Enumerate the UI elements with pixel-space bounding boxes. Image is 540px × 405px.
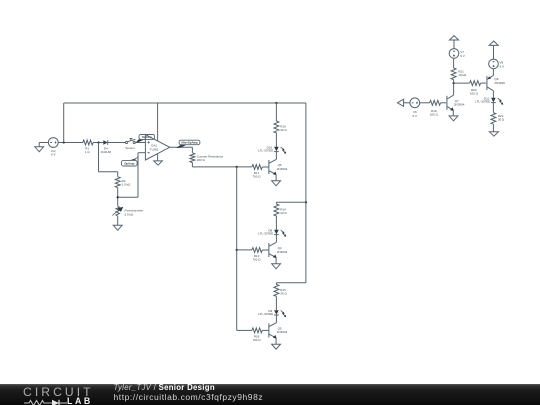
wire LED D8 to Q4 collector bbox=[275, 235, 277, 243]
svg-text:TL081: TL081 bbox=[150, 147, 159, 151]
wire R1 to diode bbox=[93, 142, 103, 144]
flag AfterOpAmp at output bbox=[177, 140, 200, 148]
wire pot to ground bbox=[117, 216, 119, 225]
wire R2 to junction bbox=[117, 188, 119, 207]
wire base bus to Q5 base bbox=[237, 329, 252, 331]
wire Vcc feed to R16 bbox=[275, 103, 277, 121]
wire right Vcc line to R14 bbox=[276, 201, 306, 203]
wire V8 to flag arrow bbox=[493, 45, 495, 59]
svg-text:LTL-307EE: LTL-307EE bbox=[258, 149, 273, 153]
svg-text:5.0 kΩ: 5.0 kΩ bbox=[125, 212, 135, 216]
flag arrow below R22 bbox=[489, 132, 498, 136]
svg-text:1 Ω: 1 Ω bbox=[85, 150, 91, 154]
svg-text:OpAmp: OpAmp bbox=[124, 161, 134, 165]
transistor Q7 2N3904 bbox=[447, 95, 465, 111]
LED D8 LTL-307EE bbox=[258, 228, 286, 236]
svg-text:700 Ω: 700 Ω bbox=[252, 175, 261, 179]
node junction before diode D4 bbox=[97, 141, 99, 143]
wire - input left and down bbox=[118, 153, 146, 198]
wire Q5 emitter to ground bbox=[275, 338, 277, 344]
wire Vcc to node bbox=[58, 142, 83, 144]
wire R22 to flag arrow bbox=[492, 124, 494, 131]
flag OpAmp at + input bbox=[136, 135, 155, 143]
LED D11 LTL-307EE bbox=[475, 96, 503, 104]
wire R21 to V7 bbox=[453, 58, 455, 68]
ground (Q6 emitter) bbox=[272, 181, 281, 186]
wire Q6 emitter to ground bbox=[275, 175, 277, 181]
wire Q7 emitter to ground bbox=[452, 110, 454, 116]
resistor R16 30 Ohm bbox=[274, 121, 288, 133]
node junction R2 / pot / op-amp feedback bbox=[117, 196, 119, 198]
wire op-amp V+ supply to rail bbox=[157, 103, 159, 141]
wire R16 to LED D10 bbox=[275, 133, 277, 147]
wire op-amp output bbox=[170, 147, 193, 153]
voltage source Vcc 6V bbox=[48, 138, 58, 157]
svg-text:10 kΩ: 10 kΩ bbox=[458, 73, 467, 77]
flag OpAmp at - input branch bbox=[122, 156, 139, 166]
wire base bus to Q4 base bbox=[237, 249, 252, 251]
wire R15 to LED D9 bbox=[275, 296, 277, 310]
svg-text:700 Ω: 700 Ω bbox=[252, 258, 261, 262]
transistor Q8 2N3906 bbox=[487, 75, 505, 90]
wire node up to top rail bbox=[63, 103, 65, 143]
svg-text:1.0 kΩ: 1.0 kΩ bbox=[122, 183, 132, 187]
svg-text:700 Ω: 700 Ω bbox=[252, 338, 261, 342]
resistor R1 1 Ohm bbox=[83, 140, 93, 154]
svg-text:6 V: 6 V bbox=[460, 54, 465, 58]
wire base bus vertical bbox=[236, 167, 238, 331]
wire R20 to Q8 base bbox=[481, 82, 487, 84]
svg-text:2N3904: 2N3904 bbox=[454, 103, 465, 107]
wire node down to R2 branch bbox=[99, 143, 118, 177]
svg-text:2N3904: 2N3904 bbox=[277, 250, 288, 254]
wire R14 to LED D8 bbox=[275, 216, 277, 230]
svg-text:LTL-307EE: LTL-307EE bbox=[258, 312, 273, 316]
wire Q4 emitter to ground bbox=[275, 258, 277, 264]
wire node to R20 bbox=[454, 82, 470, 84]
wire rail corner down right side bbox=[305, 103, 307, 283]
wire switch to op-amp + input bbox=[135, 142, 145, 144]
wire top supply rail bbox=[64, 102, 306, 104]
wire Vcc feed to R15 bbox=[275, 283, 277, 285]
svg-text:6 V: 6 V bbox=[500, 64, 505, 68]
resistor R15 30 Ohm bbox=[274, 284, 288, 296]
svg-text:100 Ω: 100 Ω bbox=[470, 91, 479, 95]
svg-text:30 Ω: 30 Ω bbox=[498, 118, 505, 122]
wire V6 to R19 bbox=[420, 102, 430, 104]
diode D4 1N4148 bbox=[101, 140, 112, 154]
ground (op-amp negative supply) bbox=[154, 161, 163, 165]
voltage source V8 6V bbox=[489, 59, 504, 69]
ground (potentiometer) bbox=[113, 225, 122, 230]
wire LED D10 to Q6 collector bbox=[275, 152, 277, 160]
wire V7 to flag arrow bbox=[453, 40, 455, 49]
resistor R22 30 Ohm bbox=[491, 113, 505, 125]
svg-text:6 V: 6 V bbox=[51, 153, 56, 157]
LED D10 LTL-307EE bbox=[258, 145, 286, 153]
svg-text:200 Ω: 200 Ω bbox=[197, 158, 206, 162]
svg-text:30 Ω: 30 Ω bbox=[280, 128, 287, 132]
wire Q8 emitter to V8 bbox=[492, 69, 494, 76]
node junction Q7 collector / R21 / R20 bbox=[452, 82, 454, 84]
svg-text:AfterOpAmp: AfterOpAmp bbox=[181, 141, 198, 145]
svg-text:Sensor: Sensor bbox=[125, 146, 135, 150]
wire R19 to Q7 base bbox=[441, 102, 447, 104]
svg-text:6 V: 6 V bbox=[413, 114, 418, 118]
svg-text:30 Ω: 30 Ω bbox=[280, 292, 287, 296]
footer title text bbox=[114, 384, 264, 402]
flag arrow above V7 bbox=[450, 36, 459, 40]
resistor R20 100 Ohm bbox=[470, 81, 481, 96]
switch SW1 Sensor bbox=[125, 139, 135, 150]
wire Q7 collector up to node bbox=[453, 83, 455, 95]
LED D9 LTL-307EE bbox=[258, 309, 286, 317]
flag arrow above V8 bbox=[489, 41, 498, 45]
voltage source V6 6V bbox=[410, 98, 420, 118]
CircuitLab logo bbox=[23, 386, 95, 405]
svg-text:30 Ω: 30 Ω bbox=[280, 211, 287, 215]
svg-text:1N4148: 1N4148 bbox=[101, 150, 112, 154]
ground (Q7 emitter) bbox=[449, 116, 458, 121]
node junction at Vcc output bbox=[63, 141, 65, 143]
resistor R18 700 Ohm bbox=[252, 328, 262, 342]
wire R13 to Q4 base bbox=[262, 249, 269, 251]
resistor R21 10 kOhm bbox=[451, 68, 467, 80]
transistor Q4 2N3904 bbox=[269, 242, 288, 258]
wire right Vcc line to R15 bbox=[276, 282, 306, 284]
resistor R14 30 Ohm bbox=[274, 204, 288, 216]
potentiometer 5.0 kOhm bbox=[112, 206, 143, 216]
svg-text:2N3906: 2N3906 bbox=[494, 81, 505, 85]
resistor R19 100 Ohm bbox=[430, 100, 441, 116]
svg-text:LTL-307EE: LTL-307EE bbox=[475, 100, 490, 104]
flag arrow left of V6 bbox=[397, 99, 410, 106]
wire LED D9 to Q5 collector bbox=[275, 315, 277, 323]
node junction base bus top bbox=[236, 166, 238, 168]
transistor Q5 2N3904 bbox=[269, 323, 288, 339]
wire Vcc feed to R14 bbox=[275, 202, 277, 204]
ground (Q5 emitter) bbox=[272, 344, 281, 349]
resistor R17 700 Ohm bbox=[252, 165, 262, 179]
resistor R2 1.0 kOhm bbox=[115, 177, 131, 188]
op-amp OA1 TL081 bbox=[145, 135, 169, 160]
wire LED D11 to R22 bbox=[492, 103, 494, 113]
svg-text:LTL-307EE: LTL-307EE bbox=[258, 232, 273, 236]
node junction base bus middle bbox=[236, 249, 238, 251]
ground (Q4 emitter) bbox=[272, 264, 281, 269]
svg-text:2N3904: 2N3904 bbox=[277, 167, 288, 171]
wire op-amp V- supply to ground bbox=[157, 154, 159, 161]
svg-text:100 Ω: 100 Ω bbox=[430, 113, 439, 117]
wire Q8 collector to LED D11 bbox=[492, 91, 494, 98]
resistor R13 700 Ohm bbox=[252, 248, 262, 262]
node junction rail to R16 bbox=[275, 102, 277, 104]
wire Counter Resistance to base bus bbox=[192, 163, 252, 167]
wire R21 to node bbox=[453, 80, 455, 84]
wire diode to switch bbox=[108, 142, 126, 144]
wire ground to Vcc source bbox=[39, 142, 48, 144]
ground (left of Vcc source) bbox=[35, 143, 44, 152]
wire R17 to Q6 base bbox=[262, 166, 269, 168]
transistor Q6 2N3904 bbox=[269, 159, 288, 175]
wire R18 to Q5 base bbox=[262, 329, 269, 331]
node junction right Vcc line to block2 bbox=[305, 201, 307, 203]
svg-text:2N3904: 2N3904 bbox=[277, 330, 288, 334]
voltage source V7 6V bbox=[449, 49, 465, 59]
resistor Counter Resistance 200 Ohm bbox=[190, 153, 224, 163]
